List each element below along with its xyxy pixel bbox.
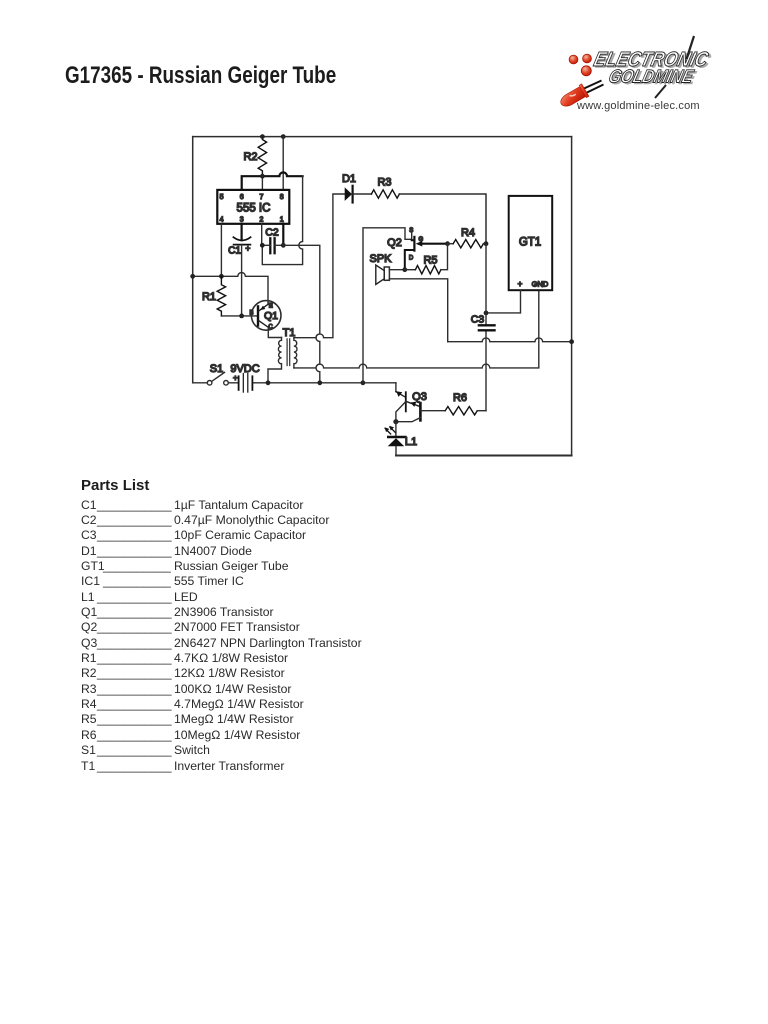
node gate / R4 / R5 [445, 241, 450, 246]
svg-text:2: 2 [259, 217, 263, 224]
svg-text:+: + [518, 280, 523, 289]
wire Q1 collector to T1 primary [268, 327, 281, 337]
svg-text:7: 7 [259, 194, 263, 201]
wire pin1 node to ground chain [283, 245, 320, 382]
wire pin2 lead [261, 224, 263, 246]
node C2 right / pin1 [281, 243, 286, 248]
resistor R4 [448, 243, 454, 245]
geiger tube GT1 [509, 196, 553, 290]
resistor R6 [445, 407, 477, 415]
LED L1 [395, 422, 397, 437]
capacitor C3 [479, 324, 495, 326]
svg-text:GT1: GT1 [519, 237, 541, 249]
node top rail / R2 [260, 134, 265, 139]
resistor R1 [217, 276, 225, 316]
node pin4 / R1 top [219, 274, 224, 279]
node battery rail / ground chain [317, 380, 322, 385]
parts list title [81, 477, 149, 494]
parts row R4 [0, 697, 768, 713]
node C2 left / pin2 [260, 243, 265, 248]
wire pin8 riser [282, 137, 284, 190]
svg-text:R1: R1 [202, 291, 216, 303]
svg-text:5: 5 [220, 194, 224, 201]
logo accent slash [687, 36, 695, 59]
wire Q2 source loop [363, 228, 412, 383]
parts row R5 [0, 712, 768, 728]
svg-text:SPK: SPK [369, 253, 392, 265]
wire rail corner to Q3 base [395, 383, 397, 392]
parts row IC1 [0, 574, 768, 590]
svg-text:R2: R2 [243, 151, 257, 163]
op-amp U1 555 IC body [217, 190, 289, 224]
svg-text:D1: D1 [342, 173, 356, 185]
svg-text:GND: GND [532, 279, 549, 288]
node battery rail / Q2 source [361, 380, 366, 385]
parts row R6 [0, 728, 768, 744]
parts row R2 [0, 666, 768, 682]
node drain / SPK / R5 [402, 267, 407, 272]
title [65, 64, 336, 89]
wire pin6-7 bracket [242, 172, 303, 189]
svg-text:S1: S1 [210, 363, 223, 375]
wire T1 secondary bottom (line B) [294, 290, 539, 368]
wire R3 right to HV chain [399, 194, 486, 244]
svg-text:+: + [233, 373, 238, 382]
node Q3 emitter / L1 [393, 419, 398, 424]
svg-text:E: E [269, 304, 273, 310]
transistor Q1 [251, 301, 281, 331]
svg-text:C3: C3 [471, 314, 485, 326]
svg-text:D: D [409, 256, 414, 262]
logo text ELECTRONIC [591, 48, 714, 73]
wire line A [448, 338, 572, 342]
wire pin4 lead [220, 224, 222, 276]
wire D1 to R3 [353, 193, 372, 195]
wire pin4 node horizontal [193, 273, 268, 305]
parts row Q1 [0, 605, 768, 621]
svg-text:4: 4 [220, 217, 224, 224]
transistor Q2 [413, 237, 415, 251]
svg-text:6: 6 [240, 194, 244, 201]
parts row S1 [0, 743, 768, 759]
parts row Q2 [0, 620, 768, 636]
capacitor C2 [269, 238, 271, 253]
logo descender slash [655, 85, 666, 98]
svg-text:S: S [409, 228, 413, 234]
node left rail / pin4 wire [190, 274, 195, 279]
wire bracket corner to pin2 loop [262, 176, 302, 264]
svg-text:3: 3 [240, 217, 244, 224]
wire pin1 lead [282, 224, 284, 246]
svg-text:Q3: Q3 [412, 391, 427, 403]
wire T1 secondary top to D1 [294, 194, 345, 338]
resistor R5 [405, 269, 416, 271]
logo Electronic Goldmine [550, 28, 720, 120]
wire pin3 lead [241, 224, 243, 240]
node battery rail / T1 primary [266, 380, 271, 385]
speaker SPK [384, 267, 389, 280]
resistor R3 [371, 190, 399, 198]
wire C1 bottom lead [241, 245, 243, 316]
svg-text:B: B [249, 311, 253, 317]
wire R1 bottom to Q1 base [221, 315, 257, 317]
parts row R3 [0, 682, 768, 698]
LED light arrows [385, 427, 395, 434]
svg-text:L1: L1 [405, 436, 417, 448]
wire SPK bottom to line A [389, 279, 447, 342]
diode D1 [345, 187, 352, 201]
parts row Q3 [0, 636, 768, 652]
parts row T1 [0, 759, 768, 775]
transistor Q3 [396, 392, 406, 398]
svg-text:C2: C2 [265, 227, 279, 239]
wire Q3 collector [420, 410, 445, 412]
parts row R1 [0, 651, 768, 667]
svg-text:C: C [268, 325, 273, 331]
wire top rail [193, 136, 572, 138]
capacitor C1 [233, 237, 250, 240]
wire battery rail [193, 382, 396, 384]
svg-text:R3: R3 [377, 176, 391, 188]
svg-text:555 IC: 555 IC [237, 203, 271, 215]
parts list [0, 0, 1, 1]
svg-text:R5: R5 [423, 255, 437, 267]
svg-text:Q1: Q1 [264, 310, 278, 322]
wire Q2 gate [421, 243, 447, 245]
wire SPK top / drain node [389, 269, 404, 271]
node C1 bottom / base wire [239, 314, 244, 319]
svg-text:Q2: Q2 [387, 237, 402, 249]
wire pin7 riser [261, 176, 263, 190]
node C3 top / GT1 plus [484, 311, 489, 316]
parts row L1 [0, 590, 768, 606]
parts row C3 [0, 528, 768, 544]
parts row GT1 [0, 559, 768, 575]
node line A / right rail [569, 339, 574, 344]
logo red dot 3 [581, 66, 591, 76]
wire left rail [192, 137, 194, 383]
svg-text:1: 1 [280, 217, 284, 224]
logo text GOLDMINE [606, 65, 699, 88]
wire HV chain vertical [485, 244, 487, 411]
switch S1 [207, 381, 212, 386]
node R4 right / HV chain [484, 241, 489, 246]
svg-text:+: + [245, 243, 250, 253]
logo red dot 2 [583, 54, 592, 63]
svg-text:8: 8 [280, 194, 284, 201]
node top rail / pin8 riser [281, 134, 286, 139]
wire right rail [571, 137, 573, 456]
resistor R2 [258, 137, 266, 177]
svg-text:R6: R6 [453, 392, 467, 404]
logo red dot 1 [569, 55, 578, 64]
parts row D1 [0, 544, 768, 560]
parts row C2 [0, 513, 768, 529]
wire GT1 plus terminal [486, 290, 521, 313]
wire bottom rail [396, 455, 572, 457]
parts row C1 [0, 498, 768, 514]
svg-text:C1: C1 [228, 246, 241, 257]
svg-text:R4: R4 [461, 227, 475, 239]
battery 9VDC [238, 376, 240, 390]
node bracket / R2 bottom [260, 174, 265, 179]
logo LED body [558, 84, 589, 110]
logo LED leads [584, 81, 604, 93]
